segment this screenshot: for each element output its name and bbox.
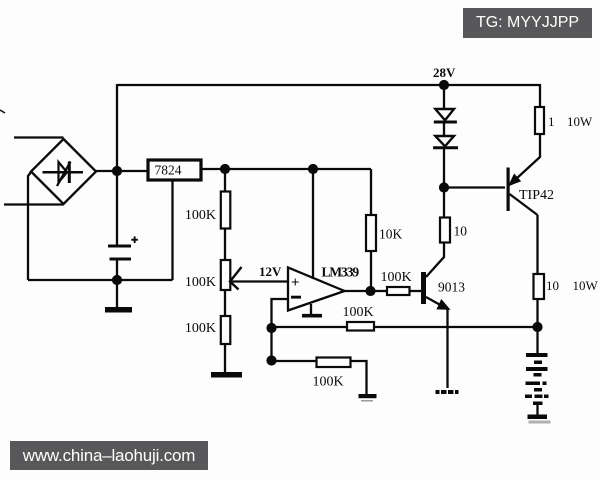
op-amp LM339 (288, 265, 359, 311)
svg-text:28V: 28V (433, 65, 456, 80)
wire (443, 122, 445, 135)
junction dot lower node (266, 355, 276, 365)
wire: diodes to TIP42 base node (443, 148, 445, 188)
wire: 10W resistor to battery node (536, 299, 538, 327)
small ground (359, 394, 377, 402)
wire: 7824 ground pin down (171, 180, 173, 280)
wire: 1 ohm to TIP42 emitter (510, 134, 540, 185)
wire: lower 100K branch (272, 360, 317, 362)
ground under divider (211, 344, 242, 378)
wire: top 28V rail (117, 84, 540, 86)
junction dot cap/ground rail (112, 275, 122, 285)
transistor TIP42 (507, 168, 555, 216)
AC input wire lower (4, 203, 64, 205)
svg-text:7824: 7824 (155, 163, 182, 178)
junction dot feedback node (266, 323, 276, 333)
wire: right drop from rail to R 1ohm (539, 84, 541, 107)
watermark bottom-left url box (10, 441, 208, 470)
wire: 10K pull-up from rail corner (370, 169, 372, 215)
junction dot at op-amp supply (308, 164, 318, 174)
resistor 100K base (381, 270, 412, 295)
wire: bridge left corner down to ground rail (28, 172, 31, 280)
wire: op-amp output to base resistor (344, 290, 387, 292)
resistor 100K upper (185, 192, 230, 229)
svg-text:10K: 10K (379, 227, 403, 242)
junction dot 7824 output at divider (220, 164, 230, 174)
wire: base node to TIP42 (444, 186, 505, 188)
svg-text:9013: 9013 (438, 280, 465, 295)
wire: op-amp supply from rail (312, 169, 314, 279)
wire: base resistor to 9013 (410, 290, 422, 292)
dashed ground under 9013 (436, 390, 459, 394)
junction dot TIP42 base node (439, 182, 449, 192)
capacitor C1 (108, 236, 138, 259)
wire: to small ground (351, 361, 367, 394)
regulator 7824 (148, 160, 201, 180)
junction dot op-amp output (365, 286, 375, 296)
wire: 9013 emitter down (446, 309, 448, 388)
wire: feedback resistor to battery top node (374, 326, 538, 328)
wire (224, 290, 226, 316)
wire: feedback line to battery node (272, 326, 348, 328)
potentiometer 100K (185, 260, 242, 290)
transistor 9013 (421, 272, 465, 309)
junction dot battery node (532, 322, 542, 332)
svg-text:10W: 10W (567, 114, 593, 129)
svg-text:1: 1 (548, 114, 555, 129)
wire: base node down to 10 ohm (443, 188, 445, 218)
wire: divider chain top (224, 169, 226, 192)
svg-text:TIP42: TIP42 (519, 188, 554, 203)
resistor 100K feedback (343, 305, 375, 331)
wire: capacitor bottom to ground rail (116, 259, 118, 280)
svg-text:10: 10 (454, 224, 468, 239)
wire: bridge output to 7824 input (96, 170, 147, 172)
junction dot at bridge output / cap node (112, 166, 122, 176)
resistor 100K lower (185, 316, 230, 344)
svg-text:10W: 10W (573, 278, 599, 293)
ground under capacitor (105, 280, 132, 313)
junction dot 28V node (439, 80, 449, 90)
svg-text:LM339: LM339 (322, 265, 360, 280)
svg-text:10: 10 (546, 278, 559, 293)
wire: 7824 output rail to 10K corner (202, 168, 371, 170)
svg-text:100K: 100K (313, 375, 344, 390)
svg-text:100K: 100K (185, 321, 216, 336)
wire: left vertical from rail to bridge output node and capacitor (116, 84, 118, 245)
stray mark left edge (0, 110, 5, 113)
svg-text:100K: 100K (185, 208, 216, 223)
watermark top-right TG box (463, 8, 592, 38)
wire: 10K to output node (370, 251, 372, 291)
wire: TIP42 collector down (536, 215, 538, 274)
resistor 10K (366, 215, 403, 251)
AC input wire upper (14, 136, 64, 138)
wire: wiper to op-amp + input (230, 280, 288, 282)
svg-text:100K: 100K (343, 305, 374, 320)
resistor 10 ohm 10W (534, 274, 599, 299)
diode D1 (434, 109, 457, 122)
resistor 10 ohm (440, 218, 467, 243)
resistor 100K bottom (313, 358, 351, 390)
bridge rectifier (31, 139, 96, 204)
svg-text:100K: 100K (185, 275, 216, 290)
wire (224, 228, 226, 260)
svg-text:12V: 12V (259, 264, 282, 279)
diode D2 (433, 136, 458, 148)
resistor 1 ohm 10W (535, 107, 593, 134)
wire: inverting input down to feedback node (272, 299, 289, 361)
ground at op-amp (302, 304, 322, 316)
svg-text:100K: 100K (381, 270, 412, 285)
battery (525, 327, 551, 424)
svg-text:+: + (291, 275, 300, 291)
wire: diode branch top (443, 85, 445, 108)
wire: bottom ground rail (28, 279, 173, 281)
wire: 10 ohm to 9013 collector (426, 243, 444, 278)
